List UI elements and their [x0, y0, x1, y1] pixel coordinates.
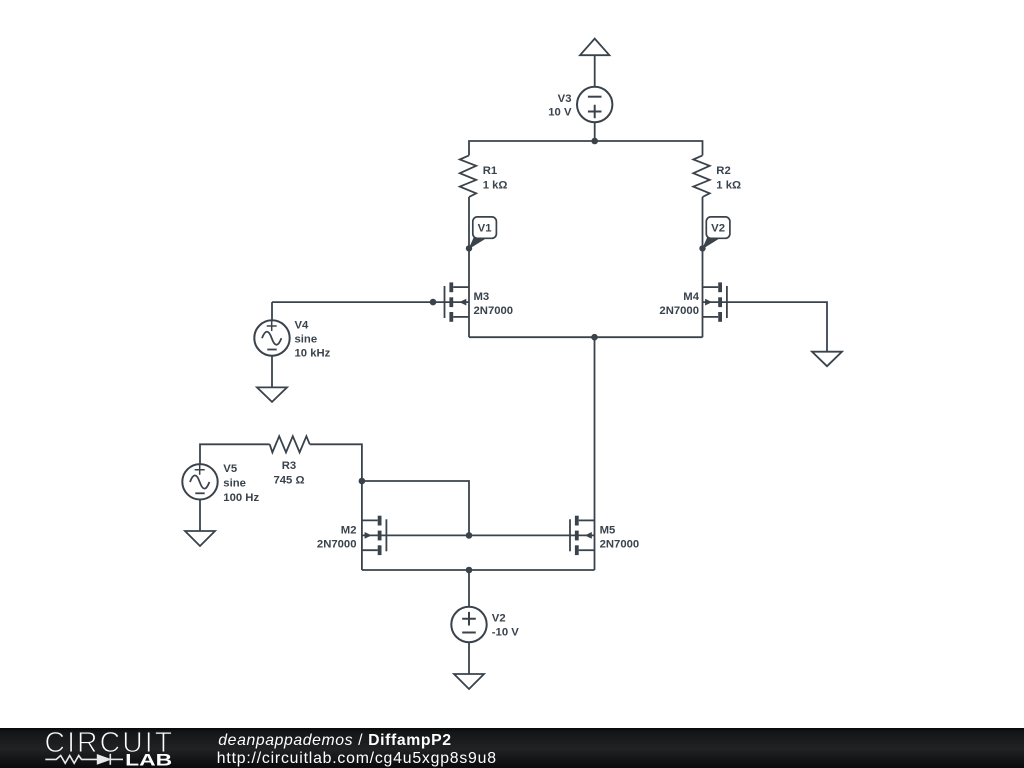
junction node V1 [466, 245, 472, 251]
voltage source V3 circle [577, 87, 612, 122]
svg-text:R3: R3 [282, 460, 296, 472]
svg-text:1 kΩ: 1 kΩ [716, 180, 741, 192]
wire top rail [469, 141, 703, 155]
V5 sine symbol [190, 475, 209, 488]
transistor M2 body (mirrored) [362, 516, 387, 555]
node flag V2 box [702, 217, 730, 250]
junction node V2 [699, 245, 705, 251]
ground symbol V2 [454, 674, 484, 689]
ground symbol right [812, 352, 842, 367]
resistor R2 zigzag [693, 155, 709, 197]
svg-text:1 kΩ: 1 kΩ [483, 180, 508, 192]
svg-text:sine: sine [295, 333, 318, 345]
wire R2 to node V2 [702, 197, 704, 248]
svg-text:745 Ω: 745 Ω [273, 475, 304, 487]
logo resistor-diode icon [45, 754, 123, 765]
V4 plus [267, 321, 277, 331]
V5 minus [195, 492, 204, 494]
svg-text:-10 V: -10 V [492, 627, 519, 639]
ground symbol V4 [257, 387, 287, 402]
wire junction to gate rail [362, 481, 469, 535]
resistor R3 zigzag [270, 436, 310, 452]
wire R1 to node V1 [468, 197, 470, 248]
transistor M5 body [570, 516, 595, 555]
V3 minus symbol [588, 96, 602, 98]
svg-text:M3: M3 [474, 291, 490, 303]
svg-text:2N7000: 2N7000 [600, 538, 640, 550]
V2 minus symbol [462, 632, 476, 634]
wire V2 to ground [468, 642, 470, 674]
junction bottom rail [466, 567, 473, 574]
resistor R1 zigzag [460, 155, 476, 197]
svg-text:M2: M2 [341, 524, 357, 536]
V4 minus [267, 349, 276, 351]
wire V4 vertical [271, 302, 273, 320]
voltage source V5 circle [182, 464, 217, 499]
footer bar [0, 728, 1024, 768]
junction source rail [591, 334, 598, 341]
svg-text:10 kHz: 10 kHz [295, 347, 331, 359]
wire gate rail M2-M5 [362, 534, 595, 536]
svg-text:2N7000: 2N7000 [474, 305, 514, 317]
svg-text:2N7000: 2N7000 [317, 538, 357, 550]
wire bottom rail to V2 source [468, 570, 470, 607]
wire M4 gate to ground [703, 302, 828, 352]
junction R3 M2 drain [359, 478, 366, 485]
wire common source rail [469, 336, 703, 338]
wire V4 to ground [271, 356, 273, 388]
V3 plus symbol [588, 105, 602, 119]
voltage source V2 circle [451, 607, 486, 642]
voltage source V4 circle [254, 320, 289, 355]
V5 plus [195, 465, 205, 475]
svg-text:http://circuitlab.com/cg4u5xgp: http://circuitlab.com/cg4u5xgp8s9u8 [217, 750, 497, 767]
ground symbol V5 [185, 531, 215, 546]
junction gate rail [466, 532, 473, 539]
wire node V1 to M3 drain [468, 248, 470, 337]
wire bottom rail [362, 569, 595, 571]
svg-text:2N7000: 2N7000 [659, 305, 699, 317]
svg-text:M5: M5 [600, 524, 616, 536]
junction M3 gate wire [430, 299, 437, 306]
wire rail to M5 drain [594, 337, 596, 570]
svg-text:M4: M4 [683, 291, 699, 303]
wire node V2 to M4 [702, 248, 704, 337]
svg-text:V3: V3 [558, 93, 572, 105]
svg-text:sine: sine [223, 478, 246, 490]
wire V4 to M3 gate [272, 301, 469, 303]
svg-text:V5: V5 [223, 463, 237, 475]
svg-text:V2: V2 [492, 613, 506, 625]
svg-text:100 Hz: 100 Hz [223, 492, 259, 504]
power flag V3 arrow [580, 39, 609, 56]
wire R3 to junction [310, 444, 362, 481]
svg-text:V2: V2 [711, 223, 725, 235]
V4 sine symbol [262, 332, 281, 345]
svg-text:R2: R2 [716, 165, 730, 177]
transistor M4 body (mirrored) [703, 282, 727, 321]
svg-text:R1: R1 [483, 165, 497, 177]
wire V5 to ground [199, 500, 201, 532]
svg-text:deanpappademos / DiffampP2: deanpappademos / DiffampP2 [218, 732, 451, 749]
svg-text:V1: V1 [478, 223, 492, 235]
node flag V1 box [468, 217, 496, 250]
wire M2 vertical [361, 481, 363, 570]
svg-text:10 V: 10 V [548, 106, 572, 118]
wire V5 top [200, 444, 270, 464]
V2 plus symbol [462, 612, 476, 626]
transistor M3 body [445, 282, 470, 321]
wire power arrow to V3 [594, 55, 596, 87]
svg-text:V4: V4 [295, 319, 310, 331]
junction top rail [591, 138, 598, 145]
wire V3 to top rail [594, 122, 596, 141]
svg-text:LAB: LAB [125, 751, 172, 768]
